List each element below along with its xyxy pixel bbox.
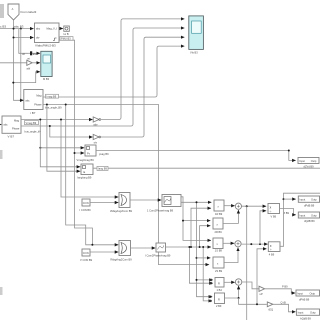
node pv1 <box>39 147 41 149</box>
wire 1S to sum2 <box>223 242 234 244</box>
wire aux drop <box>75 153 93 245</box>
svg-text:÷: ÷ <box>270 248 272 252</box>
wire Iphase <box>43 105 209 265</box>
svg-text:pvag B9: pvag B9 <box>99 152 109 156</box>
svg-text:I'MagAng2Com B9: I'MagAng2Com B9 <box>110 257 132 261</box>
svg-text:bus_angle_b9: bus_angle_b9 <box>25 129 42 133</box>
block dQdB inout <box>298 212 319 218</box>
svg-text:Phase: Phase <box>12 127 20 131</box>
wire conv1 outB <box>181 201 211 203</box>
svg-text:abc: abc <box>3 123 8 127</box>
block gate2 MagAng2Com <box>119 241 131 256</box>
wire PMU out1 <box>59 28 63 30</box>
svg-text:Mag: Mag <box>14 119 20 123</box>
svg-text:i B7: i B7 <box>30 111 36 115</box>
svg-text:Imag B9: Imag B9 <box>47 94 57 98</box>
svg-text:Mag: Mag <box>36 94 42 98</box>
selector glyph wt <box>29 52 40 54</box>
node v0a <box>182 220 184 222</box>
svg-text:2 B9: 2 B9 <box>216 304 222 308</box>
gain wt2 <box>0 62 27 64</box>
wire v3 up 2R in2 <box>200 226 211 247</box>
block VIabcPMU2-B3 <box>35 23 60 43</box>
wire gate2 in1 feeder <box>66 105 119 245</box>
svg-text:I/MagAng2Com B9: I/MagAng2Com B9 <box>110 209 132 213</box>
gain abs2 <box>93 134 99 139</box>
svg-text:I Com2Phase/mag B9: I Com2Phase/mag B9 <box>145 254 171 258</box>
block conv2 Com2Phase/mag <box>156 243 166 252</box>
svg-text:1 B4: 1 B4 <box>217 288 223 292</box>
wire gate1 to conv1 <box>130 199 161 201</box>
node pvag corner <box>288 150 290 152</box>
wire wt drop <box>19 29 29 54</box>
wire pentagon drop <box>14 20 24 100</box>
wire 2R to sum1 <box>223 210 238 223</box>
svg-text:1R B9: 1R B9 <box>215 212 223 216</box>
wire Vmag drop gate1 <box>61 120 118 198</box>
wire I CON out <box>90 202 118 204</box>
gray crop artifact bottom-left <box>0 287 3 295</box>
node dw <box>13 37 15 39</box>
wire Vmag <box>21 119 93 121</box>
sum circle 2 <box>235 241 241 247</box>
svg-text:R: R <box>218 282 220 286</box>
block 2S B9 <box>213 257 224 268</box>
wire Iang in1 feeder <box>40 120 80 167</box>
wire xd2 out <box>280 193 320 246</box>
svg-text:Input: Input <box>297 292 303 296</box>
block 1S B9 <box>213 238 223 249</box>
svg-text:c B3: c B3 <box>0 24 6 28</box>
node xd2b <box>256 303 258 305</box>
wire V B7 in <box>0 124 1 126</box>
svg-text:Outp: Outp <box>310 292 316 296</box>
wire pvag <box>96 151 296 161</box>
scope VIs B3 <box>189 16 204 50</box>
block gate1 MagAng2Com <box>119 193 130 208</box>
node in3 <box>12 82 14 84</box>
svg-text:÷: ÷ <box>270 210 272 214</box>
block V B7 <box>2 116 21 133</box>
svg-text:Iw B: Iw B <box>64 32 69 36</box>
wire 2R in1 branch <box>183 220 210 222</box>
svg-text:Outp: Outp <box>311 159 317 163</box>
node bus1 <box>13 28 15 30</box>
svg-text:dZVd B9: dZVd B9 <box>304 164 315 168</box>
wire 2S in1 feeder <box>197 257 211 259</box>
wire xd2 in2 <box>257 249 267 304</box>
node v5 <box>188 246 190 248</box>
svg-text:Input: Input <box>300 198 306 202</box>
wire row4 feed <box>239 298 267 304</box>
svg-text:dPhB B9: dPhB B9 <box>299 297 310 301</box>
gain uP <box>259 286 265 291</box>
svg-text:I CON B9: I CON B9 <box>80 208 92 212</box>
wire abs1 to scope1 <box>101 19 185 120</box>
sum circle 1 <box>235 203 241 209</box>
gray crop artifact top-left <box>0 4 4 18</box>
block dPhB inout <box>296 290 320 296</box>
node v3 <box>199 246 201 248</box>
wire gate2 to conv2 <box>131 247 156 249</box>
svg-text:4 B9: 4 B9 <box>269 253 275 257</box>
svg-text:dPdB B9: dPdB B9 <box>304 204 315 208</box>
wire dPdB feed <box>284 198 296 200</box>
svg-text:Vmag B9: Vmag B9 <box>26 121 37 125</box>
svg-text:Input: Input <box>300 214 306 218</box>
svg-text:abv: abv <box>93 123 98 127</box>
wire row3 <box>242 282 259 289</box>
label Vmag B9 boxed <box>25 121 39 125</box>
wire v2 rise 1R in2 <box>191 208 211 247</box>
svg-text:Input: Input <box>298 311 304 315</box>
node vmag1 <box>60 119 62 121</box>
node v1 <box>196 201 198 203</box>
svg-text:A: A <box>12 7 14 11</box>
block 2 B9 <box>215 293 225 304</box>
wire conv1 outA <box>181 197 211 241</box>
wire Vphase <box>21 28 184 126</box>
port circles b6 <box>210 296 212 298</box>
wire Iang out <box>93 167 320 169</box>
wire 1R to sum1 <box>224 205 235 207</box>
block 2R B9 <box>213 218 223 229</box>
wire Vphase drop to abs2 <box>50 126 93 137</box>
block dPdB inout <box>298 196 319 202</box>
wire b5 to sum3 <box>224 281 235 283</box>
wire b6 to sum3 <box>225 286 239 298</box>
wire dw branch <box>14 37 34 39</box>
svg-text:Mag_V_I: Mag_V_I <box>47 27 58 31</box>
node s2a <box>250 243 252 245</box>
block divide 2 <box>268 242 280 252</box>
svg-text:Outp: Outp <box>311 214 317 218</box>
node iabc join <box>20 99 22 101</box>
svg-text:Q tB: Q tB <box>281 300 286 304</box>
node iang2 <box>46 104 48 106</box>
svg-text:bus_angle_B9: bus_angle_B9 <box>45 106 62 110</box>
svg-text:Iabc B3: Iabc B3 <box>13 24 24 28</box>
svg-text:R: R <box>218 297 220 301</box>
wire sum2 out <box>241 243 268 245</box>
svg-text:AQdB B9: AQdB B9 <box>300 316 311 320</box>
svg-text:V CON B9: V CON B9 <box>80 258 93 262</box>
block dZVd inout <box>298 158 319 164</box>
node bus2 <box>20 28 22 30</box>
node s2b <box>259 243 261 245</box>
svg-text:CON: CON <box>83 201 89 205</box>
block AQdB inout <box>296 309 319 315</box>
svg-text:V B7: V B7 <box>8 135 15 139</box>
svg-text:wt: wt <box>22 52 25 56</box>
svg-text:M B3: M B3 <box>43 77 50 81</box>
block I CON <box>82 199 90 206</box>
scope M B3 <box>41 51 52 76</box>
svg-text:VIs B3: VIs B3 <box>190 50 198 54</box>
block 1R B9 <box>214 200 224 211</box>
svg-text:From label3: From label3 <box>21 10 37 14</box>
label Iang B9 boxed <box>97 166 108 170</box>
svg-text:Iang B9: Iang B9 <box>98 167 107 171</box>
block 1 B9 <box>215 278 224 288</box>
svg-text:tEQ: tEQ <box>269 307 273 311</box>
block conv1 Com2Phase/mag <box>162 195 181 207</box>
node b6j <box>238 297 240 299</box>
node dpdb <box>283 198 285 200</box>
svg-text:dQdB B9: dQdB B9 <box>304 219 315 223</box>
block V CON <box>82 249 90 256</box>
node aux2 <box>91 244 93 246</box>
wire 2S to sum2 <box>224 248 238 263</box>
block Iang <box>81 164 93 175</box>
wire PV in1 branch <box>40 147 84 149</box>
node s1o <box>246 205 248 207</box>
node g2f <box>65 104 67 106</box>
block i B7 <box>24 90 43 110</box>
wire b5 in2 feeder <box>189 247 212 283</box>
svg-text:Phase: Phase <box>34 103 42 107</box>
svg-text:abf: abf <box>27 66 31 70</box>
svg-text:Outp: Outp <box>311 198 317 202</box>
svg-text:abc: abc <box>36 27 41 31</box>
goto tag Iw B <box>64 26 70 31</box>
wire scope M in3 <box>13 72 40 83</box>
node v2 <box>190 246 192 248</box>
node aux1 <box>74 152 76 154</box>
svg-text:Z B9: Z B9 <box>284 211 290 215</box>
gray crop artifact mid-left <box>0 150 3 159</box>
wire abs2 to scope3 <box>101 37 185 137</box>
svg-text:1 Com2Phase/mag B9: 1 Com2Phase/mag B9 <box>147 208 174 212</box>
wire PMU out2 <box>59 40 84 153</box>
svg-text:uP: uP <box>260 292 263 296</box>
svg-text:V B9: V B9 <box>271 215 277 219</box>
wire xd1 out <box>280 209 296 215</box>
svg-text:dw: dw <box>36 36 39 40</box>
label PMU B3 boxed <box>60 37 73 41</box>
wire sum1 out <box>242 205 267 207</box>
svg-text:PMU B3: PMU B3 <box>61 37 71 41</box>
wire s1 drop <box>246 206 248 320</box>
svg-text:abc: abc <box>33 52 38 56</box>
svg-text:2R B9: 2R B9 <box>215 230 223 234</box>
wire Iang in2 feeder <box>47 105 80 172</box>
wire Iabc drop <box>20 29 22 101</box>
svg-text:Outp: Outp <box>310 311 316 315</box>
svg-text:VIabcPMU2-B3: VIabcPMU2-B3 <box>35 44 56 48</box>
svg-text:abc: abc <box>25 99 30 103</box>
node iang1 <box>39 119 41 121</box>
sum circle 3 <box>235 279 241 285</box>
gain tEQ <box>267 302 273 307</box>
svg-text:P B9: P B9 <box>282 284 288 288</box>
port circles b5 <box>210 279 212 281</box>
svg-text:1S B9: 1S B9 <box>215 249 223 253</box>
gain abs1 <box>93 117 99 122</box>
wire Imag <box>43 46 184 97</box>
svg-text:CON: CON <box>83 251 89 255</box>
node vphase1 <box>49 125 51 127</box>
wire conv2 out <box>166 246 212 248</box>
wire v1 drop <box>197 202 213 296</box>
from tag pentagon <box>8 4 19 20</box>
svg-text:2S B9: 2S B9 <box>215 269 223 273</box>
svg-text:wt: wt <box>27 57 30 61</box>
svg-text:Input: Input <box>299 159 305 163</box>
svg-text:Vmag/Imag B9: Vmag/Imag B9 <box>77 158 95 162</box>
wire v3 down b6 in2 <box>203 247 212 301</box>
svg-text:Iang/ang B9: Iang/ang B9 <box>77 176 92 180</box>
block divide K B9 <box>268 204 280 214</box>
label Imag B9 boxed <box>46 94 59 98</box>
wire V CON out <box>90 251 118 253</box>
wire xd1 in2 riser <box>260 211 266 244</box>
wire bus Vabc/Iabc <box>0 28 34 30</box>
block PV <box>85 145 96 156</box>
